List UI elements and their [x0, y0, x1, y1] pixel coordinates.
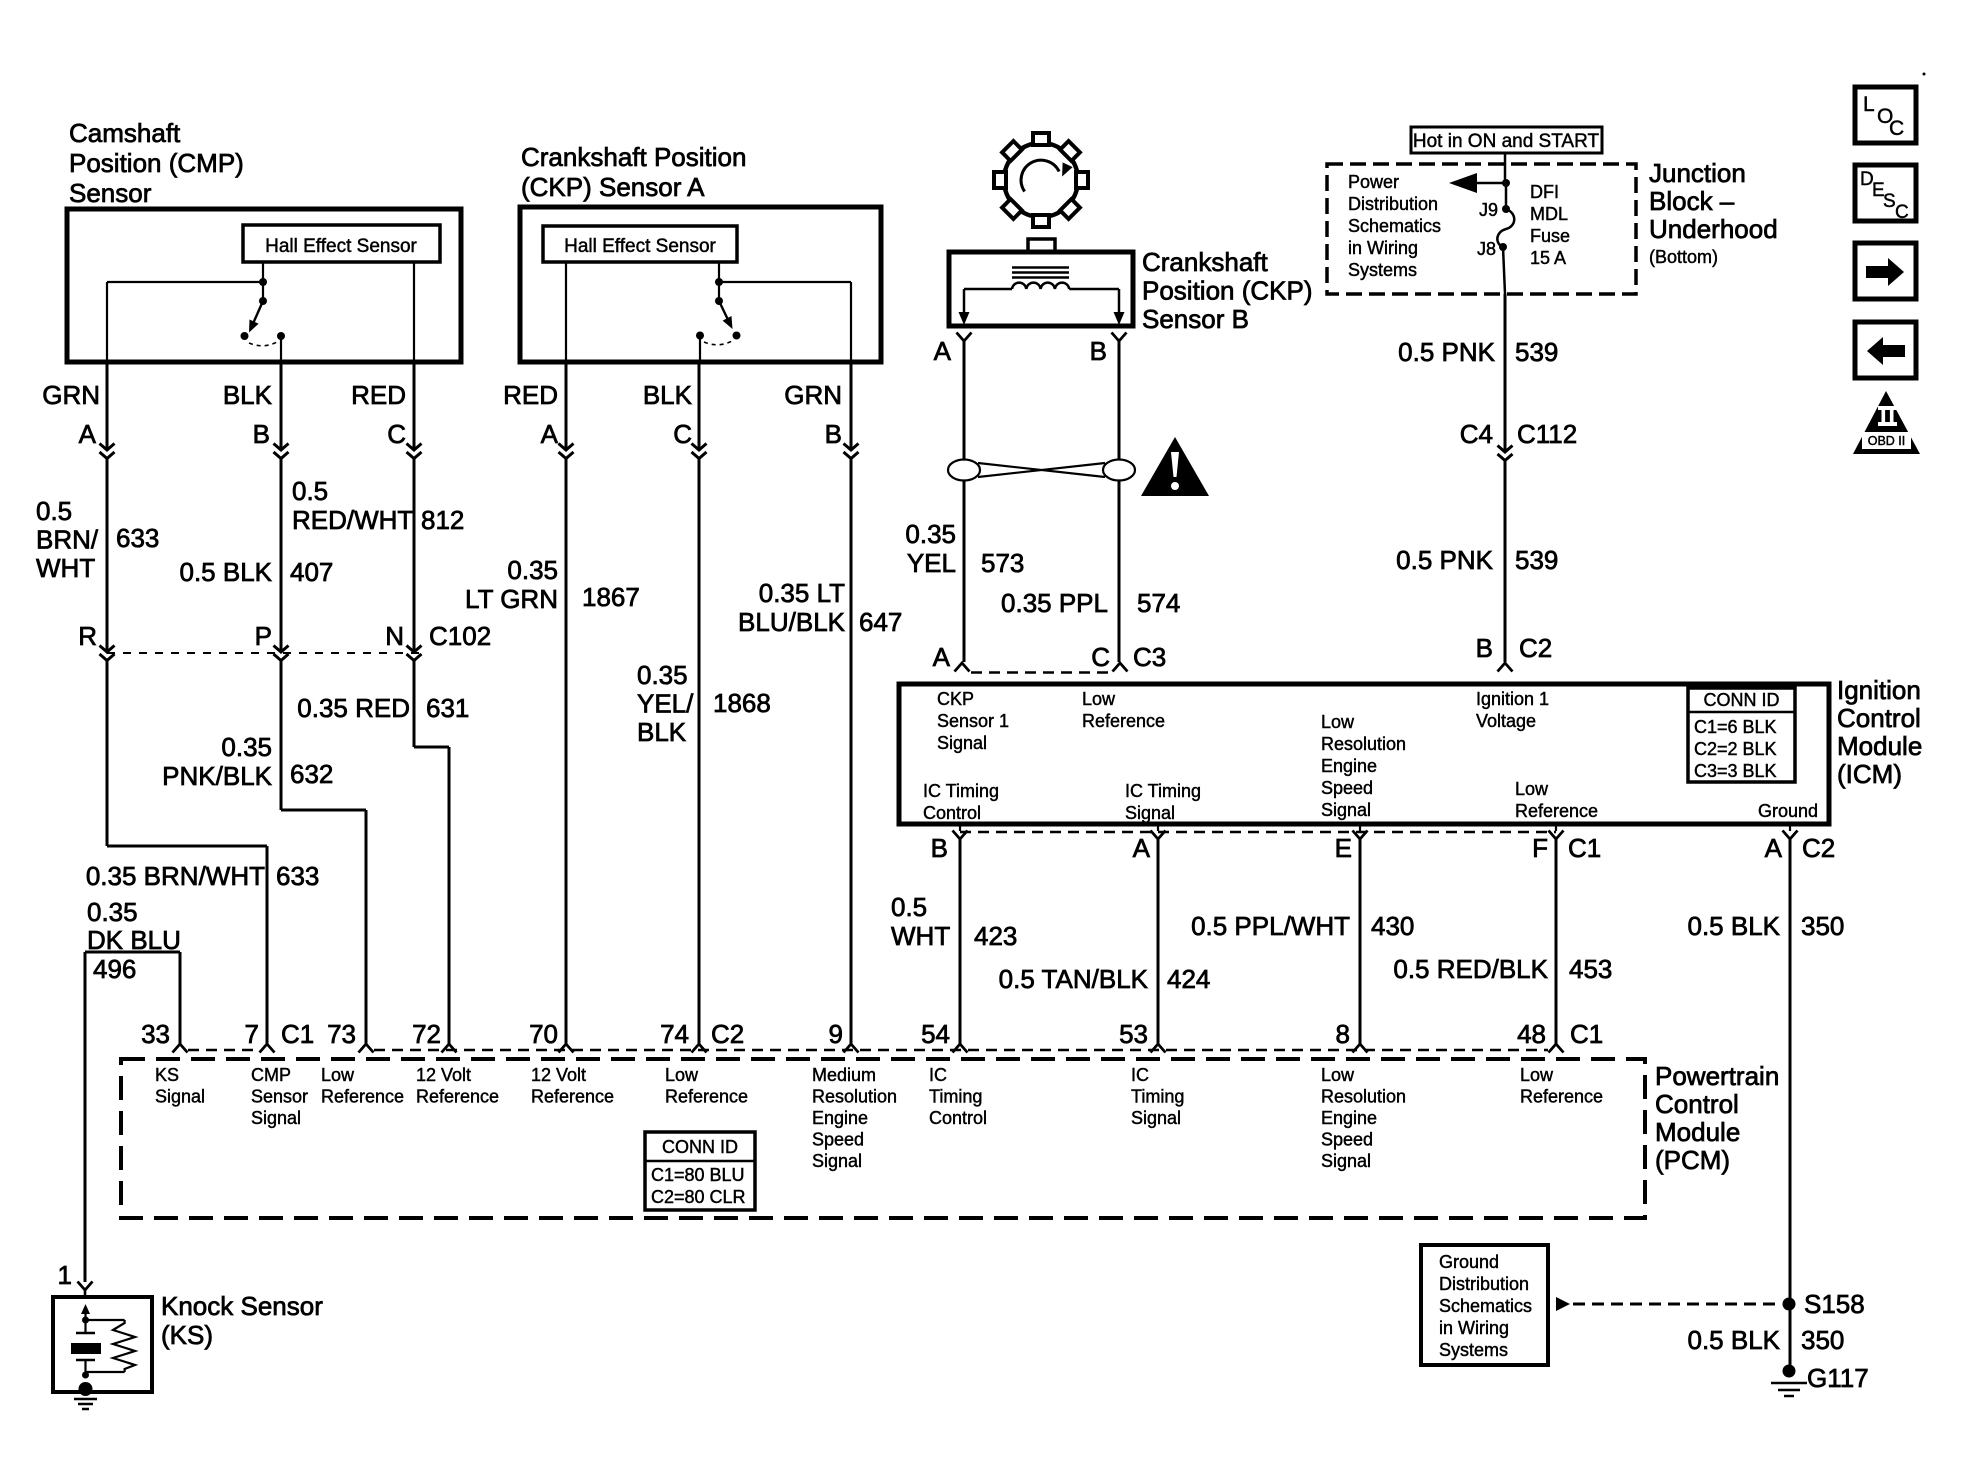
svg-text:Speed: Speed [812, 1130, 864, 1150]
svg-text:IC Timing: IC Timing [923, 781, 999, 801]
svg-text:Position (CKP): Position (CKP) [1142, 276, 1313, 306]
svg-text:C2=2 BLK: C2=2 BLK [1694, 739, 1777, 759]
svg-text:C1: C1 [281, 1019, 314, 1049]
svg-text:0.35: 0.35 [87, 897, 138, 927]
svg-text:Crankshaft: Crankshaft [1142, 247, 1268, 277]
svg-text:632: 632 [290, 759, 333, 789]
svg-text:407: 407 [290, 557, 333, 587]
svg-text:C102: C102 [429, 621, 491, 651]
svg-text:KS: KS [155, 1065, 179, 1085]
svg-text:in Wiring: in Wiring [1439, 1318, 1509, 1338]
svg-text:Reference: Reference [665, 1087, 748, 1107]
svg-text:0.35 PPL: 0.35 PPL [1001, 588, 1108, 618]
svg-text:RED: RED [351, 380, 406, 410]
svg-text:Hot in ON and START: Hot in ON and START [1413, 131, 1600, 152]
svg-text:573: 573 [981, 548, 1024, 578]
svg-text:C3: C3 [1133, 642, 1166, 672]
svg-text:0.35: 0.35 [507, 555, 558, 585]
svg-text:Systems: Systems [1439, 1340, 1508, 1360]
svg-text:Medium: Medium [812, 1065, 876, 1085]
svg-text:YEL/: YEL/ [637, 689, 694, 719]
svg-text:Systems: Systems [1348, 260, 1417, 280]
svg-text:12 Volt: 12 Volt [531, 1065, 586, 1085]
svg-text:Speed: Speed [1321, 1130, 1373, 1150]
svg-text:Knock Sensor: Knock Sensor [161, 1291, 323, 1321]
svg-text:Hall Effect Sensor: Hall Effect Sensor [265, 236, 417, 257]
svg-text:B: B [1476, 633, 1493, 663]
svg-text:70: 70 [529, 1019, 558, 1049]
svg-text:48: 48 [1517, 1019, 1546, 1049]
svg-text:Distribution: Distribution [1348, 194, 1438, 214]
svg-text:CONN ID: CONN ID [1704, 690, 1780, 710]
svg-text:496: 496 [93, 954, 136, 984]
svg-text:S158: S158 [1804, 1289, 1865, 1319]
svg-text:0.35: 0.35 [221, 732, 272, 762]
svg-text:A: A [934, 336, 952, 366]
svg-text:GRN: GRN [784, 380, 842, 410]
svg-text:BLU/BLK: BLU/BLK [738, 607, 846, 637]
svg-text:C4: C4 [1460, 419, 1493, 449]
svg-text:Module: Module [1655, 1117, 1740, 1147]
svg-text:A: A [541, 419, 559, 449]
svg-text:OBD II: OBD II [1868, 434, 1906, 448]
svg-text:Power: Power [1348, 172, 1399, 192]
svg-text:Position (CMP): Position (CMP) [69, 148, 244, 178]
svg-text:Ignition: Ignition [1837, 675, 1921, 705]
svg-text:IC: IC [929, 1065, 947, 1085]
svg-text:539: 539 [1515, 545, 1558, 575]
svg-text:1867: 1867 [582, 582, 640, 612]
svg-text:Signal: Signal [251, 1108, 301, 1128]
svg-text:C: C [1889, 117, 1904, 140]
svg-text:C: C [387, 419, 406, 449]
svg-text:424: 424 [1167, 964, 1210, 994]
svg-text:0.5 PNK: 0.5 PNK [1396, 545, 1493, 575]
svg-text:Schematics: Schematics [1439, 1296, 1532, 1316]
svg-text:Signal: Signal [1321, 1151, 1371, 1171]
svg-text:C1: C1 [1568, 833, 1601, 863]
svg-text:0.5 PPL/WHT: 0.5 PPL/WHT [1191, 911, 1350, 941]
svg-text:812: 812 [421, 505, 464, 535]
svg-text:631: 631 [426, 693, 469, 723]
svg-text:CONN ID: CONN ID [662, 1137, 738, 1157]
svg-text:7: 7 [245, 1019, 259, 1049]
svg-text:33: 33 [141, 1019, 170, 1049]
svg-text:N: N [385, 621, 404, 651]
svg-text:C2: C2 [1519, 633, 1552, 663]
svg-text:Low: Low [665, 1065, 699, 1085]
svg-text:(PCM): (PCM) [1655, 1145, 1730, 1175]
svg-text:in Wiring: in Wiring [1348, 238, 1418, 258]
svg-text:574: 574 [1137, 588, 1180, 618]
svg-text:15 A: 15 A [1530, 248, 1566, 268]
svg-text:Voltage: Voltage [1476, 711, 1536, 731]
svg-text:G117: G117 [1807, 1363, 1869, 1393]
svg-text:Low: Low [1515, 779, 1549, 799]
svg-text:430: 430 [1371, 911, 1414, 941]
svg-text:Engine: Engine [1321, 1108, 1377, 1128]
svg-text:BLK: BLK [223, 380, 273, 410]
svg-text:Block –: Block – [1649, 186, 1735, 216]
svg-text:L: L [1863, 93, 1875, 116]
svg-text:C2: C2 [1802, 833, 1835, 863]
svg-text:Low: Low [321, 1065, 355, 1085]
svg-text:Ground: Ground [1758, 801, 1818, 821]
svg-text:53: 53 [1119, 1019, 1148, 1049]
svg-text:Engine: Engine [1321, 756, 1377, 776]
svg-text:(CKP) Sensor A: (CKP) Sensor A [521, 172, 705, 202]
svg-text:BLK: BLK [637, 717, 687, 747]
svg-text:RED/WHT: RED/WHT [292, 505, 413, 535]
svg-text:54: 54 [921, 1019, 950, 1049]
svg-text:DFI: DFI [1530, 182, 1559, 202]
svg-text:Signal: Signal [155, 1087, 205, 1107]
svg-text:LT GRN: LT GRN [465, 584, 558, 614]
svg-text:E: E [1335, 833, 1352, 863]
svg-text:C1: C1 [1570, 1019, 1603, 1049]
svg-text:C2: C2 [711, 1019, 744, 1049]
svg-text:Module: Module [1837, 731, 1922, 761]
svg-text:Signal: Signal [1321, 800, 1371, 820]
svg-text:R: R [78, 621, 97, 651]
svg-text:Low: Low [1082, 689, 1116, 709]
svg-text:647: 647 [859, 607, 902, 637]
svg-text:0.5 PNK: 0.5 PNK [1398, 337, 1495, 367]
svg-text:Camshaft: Camshaft [69, 118, 181, 148]
svg-text:Control: Control [1837, 703, 1921, 733]
svg-text:Timing: Timing [1131, 1087, 1184, 1107]
svg-text:8: 8 [1336, 1019, 1350, 1049]
svg-text:C: C [1895, 202, 1909, 223]
svg-text:350: 350 [1801, 911, 1844, 941]
svg-text:Distribution: Distribution [1439, 1274, 1529, 1294]
svg-text:Fuse: Fuse [1530, 226, 1570, 246]
svg-text:Engine: Engine [812, 1108, 868, 1128]
svg-text:Low: Low [1321, 712, 1355, 732]
svg-text:C1=80 BLU: C1=80 BLU [651, 1165, 745, 1185]
svg-text:B: B [253, 419, 270, 449]
svg-text:Low: Low [1520, 1065, 1554, 1085]
svg-text:Low: Low [1321, 1065, 1355, 1085]
svg-text:633: 633 [276, 861, 319, 891]
svg-text:A: A [79, 419, 97, 449]
svg-text:B: B [825, 419, 842, 449]
svg-text:YEL: YEL [907, 548, 956, 578]
svg-text:Signal: Signal [1131, 1108, 1181, 1128]
svg-text:Junction: Junction [1649, 158, 1746, 188]
svg-text:S: S [1883, 191, 1896, 212]
svg-text:B: B [1090, 336, 1107, 366]
svg-text:9: 9 [829, 1019, 843, 1049]
svg-text:72: 72 [412, 1019, 441, 1049]
svg-text:IC: IC [1131, 1065, 1149, 1085]
svg-text:RED: RED [503, 380, 558, 410]
svg-text:C3=3 BLK: C3=3 BLK [1694, 761, 1777, 781]
svg-text:A: A [1765, 833, 1783, 863]
svg-text:1868: 1868 [713, 688, 771, 718]
svg-text:0.5 RED/BLK: 0.5 RED/BLK [1393, 954, 1548, 984]
svg-text:Schematics: Schematics [1348, 216, 1441, 236]
svg-text:Signal: Signal [1125, 803, 1175, 823]
svg-text:Hall Effect Sensor: Hall Effect Sensor [564, 236, 716, 257]
svg-text:J8: J8 [1477, 239, 1496, 259]
svg-text:Control: Control [923, 803, 981, 823]
svg-text:0.35 BRN/WHT: 0.35 BRN/WHT [86, 861, 265, 891]
svg-text:C: C [673, 419, 692, 449]
svg-text:C112: C112 [1517, 419, 1577, 449]
svg-text:J9: J9 [1479, 200, 1498, 220]
svg-text:(ICM): (ICM) [1837, 759, 1902, 789]
svg-text:0.35: 0.35 [905, 519, 956, 549]
svg-text:350: 350 [1801, 1325, 1844, 1355]
svg-text:12 Volt: 12 Volt [416, 1065, 471, 1085]
svg-text:0.5 BLK: 0.5 BLK [179, 557, 272, 587]
svg-text:(KS): (KS) [161, 1320, 213, 1350]
svg-text:CKP: CKP [937, 689, 974, 709]
svg-text:GRN: GRN [42, 380, 100, 410]
svg-text:Timing: Timing [929, 1087, 982, 1107]
svg-text:CMP: CMP [251, 1065, 291, 1085]
svg-text:0.5 BLK: 0.5 BLK [1687, 911, 1780, 941]
svg-text:Signal: Signal [937, 733, 987, 753]
svg-text:BRN/: BRN/ [36, 525, 99, 555]
svg-text:C: C [1091, 642, 1110, 672]
svg-text:BLK: BLK [643, 380, 693, 410]
svg-text:453: 453 [1569, 954, 1612, 984]
svg-text:Powertrain: Powertrain [1655, 1061, 1779, 1091]
svg-text:Reference: Reference [531, 1087, 614, 1107]
svg-text:A: A [1133, 833, 1151, 863]
svg-text:0.35 RED: 0.35 RED [297, 693, 410, 723]
svg-text:Reference: Reference [1515, 801, 1598, 821]
svg-text:Resolution: Resolution [1321, 1087, 1406, 1107]
svg-text:WHT: WHT [36, 553, 95, 583]
svg-text:C2=80 CLR: C2=80 CLR [651, 1187, 746, 1207]
svg-text:73: 73 [327, 1019, 356, 1049]
svg-text:Sensor: Sensor [251, 1087, 308, 1107]
svg-text:0.35: 0.35 [637, 660, 688, 690]
svg-text:1: 1 [58, 1260, 72, 1290]
svg-text:A: A [933, 642, 951, 672]
svg-text:Ground: Ground [1439, 1252, 1499, 1272]
svg-text:Reference: Reference [416, 1087, 499, 1107]
svg-text:Resolution: Resolution [1321, 734, 1406, 754]
svg-text:74: 74 [660, 1019, 689, 1049]
svg-text:0.5: 0.5 [891, 892, 927, 922]
svg-text:0.5 TAN/BLK: 0.5 TAN/BLK [999, 964, 1149, 994]
svg-text:423: 423 [974, 921, 1017, 951]
svg-text:Underhood: Underhood [1649, 214, 1778, 244]
svg-text:Resolution: Resolution [812, 1087, 897, 1107]
svg-text:Sensor 1: Sensor 1 [937, 711, 1009, 731]
svg-text:0.5 BLK: 0.5 BLK [1687, 1325, 1780, 1355]
svg-text:Reference: Reference [1520, 1087, 1603, 1107]
svg-text:Control: Control [929, 1108, 987, 1128]
svg-text:Reference: Reference [1082, 711, 1165, 731]
svg-text:0.35 LT: 0.35 LT [759, 578, 845, 608]
svg-text:MDL: MDL [1530, 204, 1568, 224]
svg-text:Ignition 1: Ignition 1 [1476, 689, 1549, 709]
svg-text:Crankshaft Position: Crankshaft Position [521, 142, 746, 172]
svg-text:Speed: Speed [1321, 778, 1373, 798]
svg-text:P: P [255, 621, 272, 651]
svg-text:WHT: WHT [891, 921, 950, 951]
svg-text:Signal: Signal [812, 1151, 862, 1171]
svg-text:539: 539 [1515, 337, 1558, 367]
svg-text:F: F [1532, 833, 1548, 863]
svg-text:0.5: 0.5 [292, 476, 328, 506]
svg-text:Sensor B: Sensor B [1142, 304, 1249, 334]
svg-text:633: 633 [116, 523, 159, 553]
svg-text:(Bottom): (Bottom) [1649, 247, 1718, 267]
svg-text:Reference: Reference [321, 1087, 404, 1107]
svg-text:PNK/BLK: PNK/BLK [162, 761, 272, 791]
svg-text:C1=6 BLK: C1=6 BLK [1694, 717, 1777, 737]
svg-text:IC Timing: IC Timing [1125, 781, 1201, 801]
svg-text:0.5: 0.5 [36, 496, 72, 526]
svg-text:Control: Control [1655, 1089, 1739, 1119]
svg-text:Sensor: Sensor [69, 178, 152, 208]
svg-text:B: B [931, 833, 948, 863]
